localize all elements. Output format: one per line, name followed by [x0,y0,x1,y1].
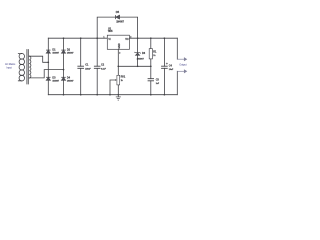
capacitor C1 [77,66,84,68]
svg-text:10uF: 10uF [169,69,174,71]
svg-text:1N4007: 1N4007 [67,51,74,54]
wire top rail to regulator input [48,37,107,39]
svg-text:R1: R1 [153,50,157,53]
diode D5 (across regulator) [115,15,119,19]
ground [116,95,121,100]
svg-text:D6: D6 [142,52,146,55]
diode D4 leads [63,70,65,95]
transformer primary stubs [18,54,22,81]
svg-text:C2: C2 [101,64,105,67]
diode D2 [61,50,65,53]
potentiometer RV1 wiper wire [110,80,115,95]
wire secondary top to bridge left midpoint [29,56,48,62]
svg-text:C3: C3 [156,78,160,81]
svg-text:2: 2 [119,52,120,54]
resistor R1 [149,49,152,59]
svg-text:1: 1 [103,37,104,39]
output terminal - vertical [176,71,178,94]
capacitor C3 leads [150,66,152,94]
svg-text:C1: C1 [85,64,89,67]
capacitor C3 [148,79,154,81]
svg-text:220uF: 220uF [85,68,91,70]
svg-text:1N4007: 1N4007 [52,51,59,54]
svg-text:3: 3 [130,37,131,39]
svg-text:1N4007: 1N4007 [67,79,74,82]
regulator U1 box [103,28,131,55]
svg-text:AC Mains: AC Mains [5,63,16,66]
capacitor C2 leads + bypass left vertical [96,38,98,94]
capacitor C2 [94,66,101,68]
diode D3 [46,77,50,80]
svg-text:D1: D1 [52,49,56,52]
transformer core [27,50,28,85]
svg-text:D5: D5 [116,10,120,14]
svg-text:1N4007: 1N4007 [137,57,145,60]
svg-text:1k: 1k [153,55,156,57]
diode D3 leads [47,62,49,94]
svg-text:1uF: 1uF [156,83,160,85]
capacitor C1 leads [80,38,82,94]
svg-text:D2: D2 [67,49,71,52]
svg-text:1N4007: 1N4007 [52,79,59,82]
potentiometer RV1 [115,75,126,85]
svg-text:1k: 1k [121,80,124,82]
wire bottom rail [48,94,177,96]
svg-text:C4: C4 [169,65,173,68]
svg-text:VO: VO [125,38,129,41]
output terminal + arrow [177,58,186,61]
wire secondary bottom to bridge right midpoint [29,70,63,78]
diode D1 leads [47,38,49,62]
svg-text:D3: D3 [52,77,56,80]
svg-text:7805: 7805 [108,31,114,33]
svg-text:Input: Input [7,66,13,69]
svg-text:0.1uF: 0.1uF [101,68,107,70]
svg-text:1N4007: 1N4007 [116,21,124,24]
diode D1 [46,50,50,53]
svg-text:RV1: RV1 [121,76,126,79]
wire gnd-pin node horizontal [118,65,151,67]
capacitor C4 leads [163,38,165,94]
zener diode D6 leads [137,38,139,66]
svg-text:D4: D4 [67,77,71,80]
junction dots [47,37,165,95]
output terminal + vertical [176,38,178,59]
output terminal - arrow [177,70,186,73]
transformer TR secondary coil [29,56,31,78]
regulator U1 gnd pin [117,49,119,94]
wire output rail [129,37,177,39]
transformer TR primary coil (loops) [19,53,24,59]
svg-text:GND: GND [118,43,121,48]
svg-text:Output: Output [179,62,187,66]
zener diode D6 [135,52,141,56]
wire bypass loop [97,17,137,38]
diode D2 leads [63,38,65,69]
resistor R1 leads [150,38,152,66]
capacitor C4 (+) [161,66,168,68]
diode D4 [61,77,65,80]
